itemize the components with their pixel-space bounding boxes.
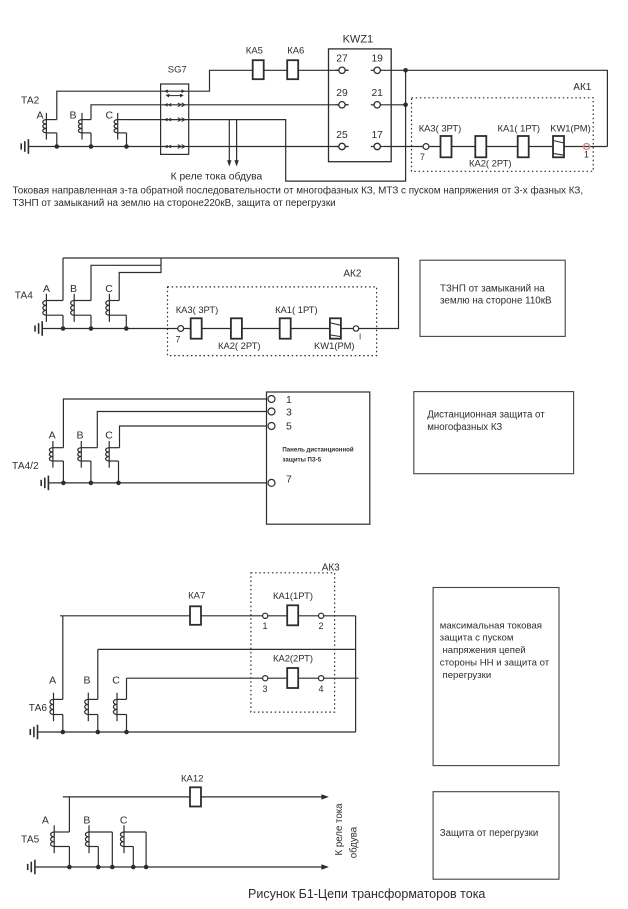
wire: section-1 ground bus to KWZ1 terminal 25 (28, 146, 348, 148)
panel terminal 7 (268, 473, 292, 486)
KWZ1 terminal 21 (371, 88, 384, 108)
svg-text:КА1( 1РТ): КА1( 1РТ) (275, 304, 318, 315)
junction (61, 326, 66, 331)
KWZ1 terminal 17 (371, 130, 384, 150)
svg-text:КА1( 1РТ): КА1( 1РТ) (498, 123, 541, 134)
ground (section 2) (35, 321, 42, 336)
wire: TA6-C secondary to bus (126, 715, 128, 733)
svg-text:27: 27 (336, 54, 348, 65)
junction (144, 865, 149, 870)
svg-text:ТА4: ТА4 (15, 290, 34, 301)
svg-text:ТА4/2: ТА4/2 (12, 461, 39, 472)
junction (124, 730, 129, 735)
relay coil KA1 (1РТ) (498, 123, 541, 158)
terminal 7 (AK1 input) (420, 144, 429, 162)
wire: TA4/2-B secondary to bus (90, 461, 92, 483)
svg-text:В: В (84, 675, 91, 687)
svg-text:SG7: SG7 (168, 64, 187, 75)
relay coil KA2 (2РТ) AK2 (218, 318, 261, 351)
current transformer TA5 phase C (120, 825, 146, 853)
current transformer TA2 phase C (114, 113, 126, 140)
junction (61, 481, 66, 486)
relay coil KW1 (РМ) (550, 123, 591, 158)
relay coil KA3 (3РТ) AK2 (176, 304, 219, 339)
wire: TA4/2-A secondary to panel terminal 1 (63, 399, 268, 448)
junction (67, 865, 72, 870)
svg-text:КА2( 2РТ): КА2( 2РТ) (469, 157, 512, 168)
junction (116, 481, 121, 486)
ground (section 4) (30, 725, 37, 740)
junction (403, 68, 408, 73)
distance protection panel ПЗ-5 (267, 392, 370, 524)
test block SG7 (161, 64, 189, 154)
panel boundary AK1 (412, 98, 594, 172)
arrow: KA12 row to blow relay (321, 794, 329, 799)
wire: TA6-B secondary to bus (97, 715, 99, 733)
wire: TA2-A secondary to bus (56, 133, 58, 147)
junction (96, 865, 101, 870)
svg-text:19: 19 (371, 54, 383, 65)
wire: TA4-A secondary to return (62, 258, 64, 301)
KWZ1 terminal 19 (371, 54, 384, 74)
junction (96, 730, 101, 735)
svg-text:максимальная токовая: максимальная токовая (440, 620, 542, 631)
svg-text:С: С (120, 815, 128, 827)
current transformer TA6 phase B (85, 693, 98, 722)
junction (89, 481, 94, 486)
wire: TA5-C secondary short top (145, 832, 147, 867)
description box: MTZ with voltage start (433, 588, 559, 766)
wire: TA4/2-B secondary to panel terminal 3 (97, 412, 268, 448)
panel boundary AK3 (251, 573, 335, 712)
current transformer TA2 phase A (43, 113, 57, 140)
svg-text:3: 3 (263, 684, 268, 694)
arrows: to blow-relay (К реле тока обдува) (227, 120, 239, 167)
junction (89, 144, 94, 149)
current transformer TA6 phase C (113, 693, 126, 722)
current transformer TA4 phase C (106, 294, 127, 322)
relay coil KA12 (181, 773, 203, 806)
svg-text:1: 1 (584, 150, 589, 160)
svg-text:Токовая направленная з-та обра: Токовая направленная з-та обратной после… (13, 186, 584, 197)
arrow: bus to blow relay (321, 864, 329, 869)
wire: section-2 bus, relay chain return loop (42, 258, 398, 329)
svg-text:КА5: КА5 (246, 45, 263, 56)
svg-text:I: I (359, 333, 361, 342)
svg-text:ТЗНП от замыканий на: ТЗНП от замыканий на (440, 284, 545, 295)
KWZ1 terminal 25 (336, 130, 349, 150)
wire: KWZ1 19 along top to AK1 output (384, 70, 608, 146)
svg-text:В: В (70, 283, 77, 295)
svg-text:ТА6: ТА6 (29, 703, 48, 714)
svg-text:АК1: АК1 (573, 82, 591, 93)
wire: TA6-A secondary to bus (62, 715, 64, 733)
wire: TA4/2-A secondary to bus (62, 461, 64, 483)
wire: SG7 row 2 to KWZ1 terminal 29 (161, 104, 349, 106)
description box: ТЗНП 110кВ (420, 260, 565, 336)
svg-text:ТА2: ТА2 (21, 95, 40, 106)
wire: SG7 row 1 through KA5 KA6 to KWZ1 terminal 27 (161, 70, 349, 91)
panel terminal 3 (268, 406, 292, 418)
svg-text:4: 4 (319, 684, 324, 694)
relay coil KW1 (РМ) AK2 (314, 318, 355, 351)
wire: TA2-B secondary to SG7 row 2 (91, 105, 161, 120)
ground (section 3) (41, 476, 48, 491)
relay coil KA1 (1РТ) AK3 (273, 590, 313, 625)
wire: TA6-C row through KA2 (127, 677, 359, 679)
terminal 1 (AK2 output) (353, 326, 361, 342)
current transformer TA4/2 phase B (78, 441, 98, 468)
svg-text:стороны НН и защита от: стороны НН и защита от (440, 658, 550, 669)
panel boundary AK2 (168, 287, 377, 356)
wire: TA6-A secondary up (62, 616, 64, 700)
svg-text:землю на стороне 110кВ: землю на стороне 110кВ (440, 296, 552, 307)
ground (section 1) (21, 139, 28, 154)
wire: TA4/2-C secondary to panel terminal 5 (120, 426, 269, 448)
svg-text:КА3( 3РТ): КА3( 3РТ) (176, 304, 219, 315)
svg-text:7: 7 (286, 473, 292, 485)
junction (55, 144, 60, 149)
wire: TA6-B row to return (98, 648, 356, 650)
svg-text:С: С (112, 675, 120, 687)
description box: overload protection (433, 792, 559, 880)
svg-text:25: 25 (336, 130, 348, 141)
svg-text:ТА5: ТА5 (21, 835, 40, 846)
wire: TA2-B secondary to bus (90, 133, 92, 147)
wire: TA4-B secondary to bus (90, 315, 92, 328)
current transformer TA6 phase A (50, 693, 63, 722)
svg-text:Дистанционная защита от: Дистанционная защита от (427, 409, 545, 420)
description box: distance protection (414, 392, 574, 474)
AK3 terminal 1 (263, 613, 268, 631)
wire: TA2-A secondary to SG7 row 1 (57, 91, 161, 119)
current transformer TA5 phase B (85, 825, 112, 853)
wire: TA4-A secondary to bus (62, 315, 64, 328)
svg-text:1: 1 (286, 394, 292, 406)
panel terminal 1 (268, 394, 292, 406)
wire: TA4-C secondary to return (119, 258, 161, 301)
svg-text:С: С (105, 283, 113, 295)
wire: section-4 return to bus (355, 616, 357, 732)
wire: TA2-C secondary to bus (126, 133, 128, 147)
svg-text:К реле тока обдува: К реле тока обдува (171, 171, 263, 183)
svg-text:В: В (77, 430, 84, 442)
wire: section-3 bus to panel terminal 7 (48, 482, 268, 484)
relay coil KA7 (188, 591, 205, 625)
svg-text:КА2( 2РТ): КА2( 2РТ) (218, 340, 261, 351)
svg-text:Защита от перегрузки: Защита от перегрузки (440, 828, 539, 839)
wire: TA4-C secondary to bus (125, 315, 127, 328)
relay coil KA1 (1РТ) AK2 (275, 304, 318, 339)
panel terminal 5 (268, 421, 292, 433)
svg-text:21: 21 (371, 88, 383, 99)
junction (89, 326, 94, 331)
label К реле тока обдува (vertical) (334, 803, 360, 858)
svg-text:В: В (83, 815, 90, 827)
wire: section-4 bus (38, 731, 356, 733)
current transformer TA5 phase A (51, 825, 70, 853)
wire: TA5-A secondary up (68, 797, 70, 832)
svg-text:многофазных КЗ: многофазных КЗ (427, 422, 502, 433)
svg-text:29: 29 (336, 88, 348, 99)
current transformer TA2 phase B (78, 113, 91, 140)
svg-text:А: А (37, 109, 44, 121)
svg-text:КА7: КА7 (188, 591, 205, 602)
wire: KWZ1 21 to node (384, 104, 406, 106)
svg-text:3: 3 (286, 406, 292, 418)
AK3 terminal 4 (319, 676, 324, 694)
svg-text:АК3: АК3 (322, 563, 340, 574)
svg-text:С: С (105, 430, 113, 442)
ground (section 5) (28, 860, 35, 875)
svg-text:защита с пуском: защита с пуском (440, 633, 514, 644)
wire: TA2-C secondary to SG7 row 3 (127, 119, 161, 121)
terminal 1 (AK1 output, red) (584, 144, 590, 160)
junction (403, 103, 408, 108)
wire: KWZ1 17 through AK1 relay chain (384, 146, 608, 148)
svg-text:1: 1 (263, 621, 268, 631)
svg-text:KWZ1: KWZ1 (343, 34, 374, 46)
svg-text:7: 7 (420, 152, 425, 162)
svg-text:7: 7 (176, 334, 181, 344)
svg-text:KW1(РМ): KW1(РМ) (314, 340, 355, 351)
junction (131, 865, 136, 870)
junction (124, 144, 129, 149)
relay coil KA5 (246, 45, 264, 79)
svg-text:перегрузки: перегрузки (443, 670, 492, 681)
KWZ1 terminal 29 (336, 88, 349, 108)
svg-text:защиты ПЗ-5: защиты ПЗ-5 (282, 456, 321, 463)
wire: section-5 bus to blow relay (35, 866, 326, 868)
wire: TA5-B secondary short bottom (97, 847, 99, 868)
terminal 7 (AK2 input) (176, 326, 184, 345)
wire: TA6-C secondary up (126, 678, 128, 699)
KWZ1 terminal 27 (336, 54, 349, 74)
wire: SG7 row 3 around KWZ1 to top node (161, 70, 406, 181)
junction (124, 326, 129, 331)
current transformer TA4 phase B (71, 294, 91, 322)
svg-text:5: 5 (286, 421, 292, 433)
svg-text:КА12: КА12 (181, 773, 203, 784)
svg-text:С: С (106, 109, 114, 121)
svg-text:А: А (49, 430, 56, 442)
terminal block KWZ1 (329, 49, 392, 162)
svg-text:Панель дистанционной: Панель дистанционной (282, 446, 354, 453)
current transformer TA4/2 phase C (106, 441, 120, 468)
svg-text:КА1(1РТ): КА1(1РТ) (273, 590, 313, 601)
AK3 terminal 3 (263, 676, 268, 694)
AK3 terminal 2 (319, 613, 324, 631)
relay coil KA2 (2РТ) (469, 136, 512, 168)
junction (61, 730, 66, 735)
svg-text:17: 17 (371, 130, 383, 141)
wire: TA4/2-C secondary to bus (118, 461, 120, 483)
wire: TA5-C secondary short bottom (132, 847, 134, 868)
svg-text:А: А (43, 283, 50, 295)
junction (110, 865, 115, 870)
relay coil KA2 (2РТ) AK3 (273, 653, 313, 689)
relay coil KA3 (3РТ) (419, 123, 462, 158)
svg-text:К реле тока: К реле тока (334, 803, 345, 856)
svg-text:2: 2 (319, 621, 324, 631)
svg-text:обдува: обдува (349, 826, 360, 858)
svg-text:КА2(2РТ): КА2(2РТ) (273, 653, 313, 664)
current transformer TA4/2 phase A (49, 441, 63, 468)
svg-text:KW1(РМ): KW1(РМ) (550, 123, 591, 134)
svg-text:АК2: АК2 (343, 269, 361, 280)
wire: TA6-B secondary up (97, 649, 99, 699)
wire: TA5-A secondary to bus (68, 847, 70, 868)
current transformer TA4 phase A (43, 294, 63, 322)
svg-text:ТЗНП от замыканий на землю на: ТЗНП от замыканий на землю на стороне220… (13, 198, 336, 209)
svg-text:А: А (42, 815, 49, 827)
svg-text:Рисунок Б1-Цепи трансформаторо: Рисунок Б1-Цепи трансформаторов тока (248, 887, 485, 901)
svg-text:КА6: КА6 (287, 45, 304, 56)
wire: TA5-A row through KA12 to blow relay (63, 796, 326, 798)
svg-text:КА3( 3РТ): КА3( 3РТ) (419, 123, 462, 134)
svg-text:напряжения цепей: напряжения цепей (443, 645, 526, 656)
svg-text:В: В (70, 109, 77, 121)
wire: TA6-A row through KA7 KA1 (60, 615, 356, 617)
relay coil KA6 (287, 45, 304, 79)
svg-text:А: А (49, 675, 56, 687)
wire: TA5-B secondary short top (111, 832, 113, 867)
wire: TA4-B secondary to return (91, 265, 161, 300)
